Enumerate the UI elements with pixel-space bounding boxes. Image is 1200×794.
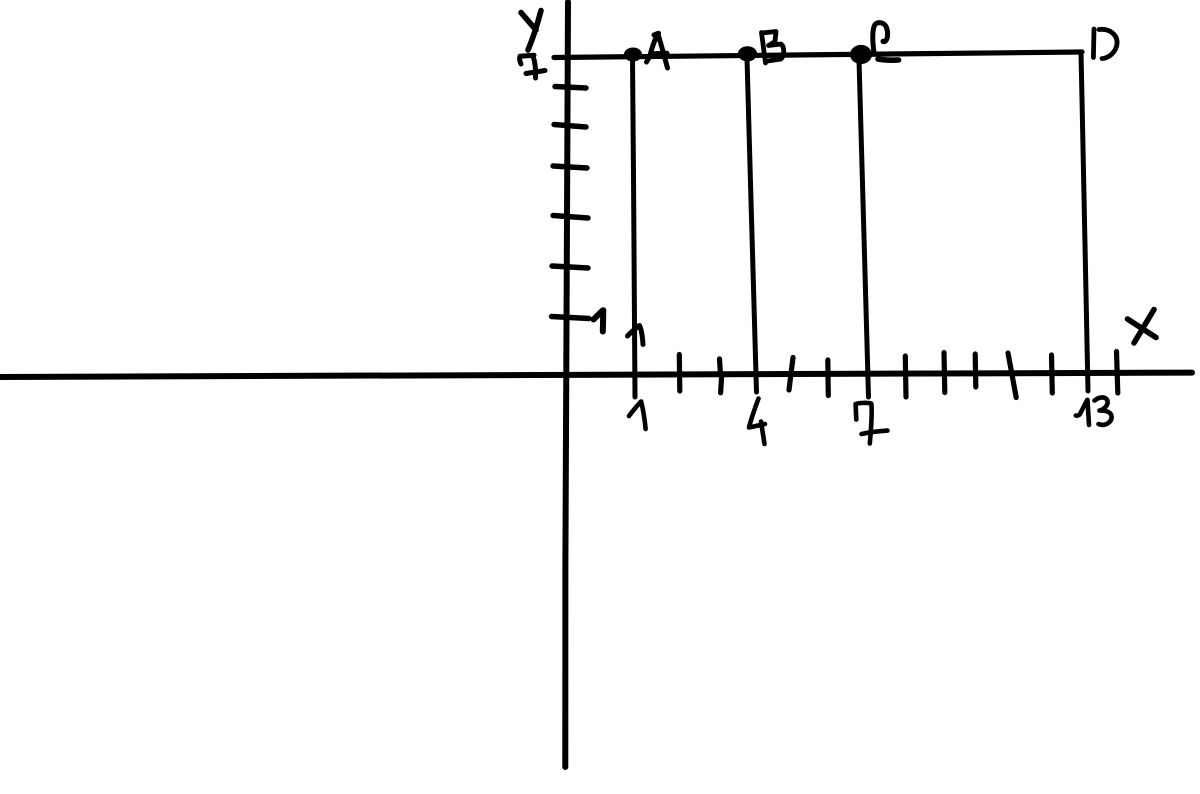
x-axis value 1: [629, 402, 646, 430]
segment from B: [747, 58, 757, 392]
x-axis tick 9: [941, 353, 947, 393]
x-axis tick 2: [677, 355, 683, 392]
label B: [762, 32, 784, 64]
segment from D: [1081, 53, 1088, 391]
y-axis tick 2: [552, 266, 588, 268]
x-axis tick 11: [1008, 353, 1016, 398]
x-axis value 4: [749, 399, 765, 445]
x-axis tick 3: [720, 359, 722, 393]
y-axis value 1: [594, 310, 604, 331]
label C: [873, 23, 888, 53]
x-axis: [0, 373, 1192, 377]
x-axis label X: [1128, 310, 1157, 344]
x-axis tick 14: [1117, 352, 1118, 394]
x-axis tick 8: [903, 356, 909, 397]
point B: [738, 46, 757, 61]
point A: [624, 48, 642, 62]
x-axis value 13: [1076, 397, 1112, 425]
y-axis: [565, 2, 568, 767]
y-axis tick 5: [554, 125, 586, 128]
segment from C: [859, 60, 869, 397]
x-axis tick 6: [825, 360, 831, 396]
y-axis label Y: [521, 11, 541, 51]
point C: [850, 45, 872, 64]
segment from A: [633, 58, 636, 397]
label D: [1093, 29, 1117, 59]
segment AD at y=7: [554, 52, 1082, 58]
extra stroke near C: [878, 59, 899, 60]
label A: [647, 33, 668, 68]
y-axis tick 6: [555, 87, 586, 89]
x-axis tick 12: [1049, 355, 1055, 393]
y-axis tick 3: [553, 216, 588, 219]
y-axis tick 4: [553, 166, 587, 168]
y-axis tick 1: [552, 317, 590, 319]
small mark on segment A: [628, 326, 644, 345]
x-axis tick 10: [973, 354, 979, 387]
y-axis value 7: [520, 55, 545, 78]
x-axis tick 5: [789, 358, 793, 391]
x-axis value 7: [856, 403, 888, 444]
